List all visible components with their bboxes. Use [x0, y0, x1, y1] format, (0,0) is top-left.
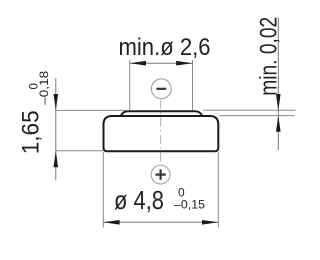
battery body B1 — [104, 116, 219, 151]
svg-text:min.ø 2,6: min.ø 2,6 — [119, 34, 211, 61]
dimension bottom: diameter 4,8 0/-0,15 — [103, 152, 218, 228]
svg-text:–0,18: –0,18 — [39, 71, 51, 105]
svg-text:ø 4,8: ø 4,8 — [114, 185, 164, 215]
dimension right: min 0,02 step — [203, 17, 296, 150]
dimension left: height 1,65 0/-0,18 — [18, 71, 130, 180]
minus terminal symbol — [151, 79, 171, 99]
svg-text:min. 0,02: min. 0,02 — [256, 17, 283, 96]
svg-text:1,65: 1,65 — [18, 110, 45, 154]
center line — [160, 100, 162, 165]
plus terminal symbol — [151, 165, 170, 184]
battery cap (negative terminal lid) — [121, 111, 202, 116]
svg-text:–0,15: –0,15 — [174, 197, 205, 211]
dimension top: min diameter 2,6 — [119, 34, 211, 110]
